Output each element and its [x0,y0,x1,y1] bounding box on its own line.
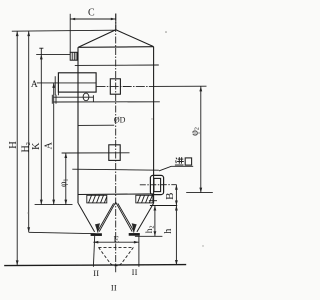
arrow h2 top [154,206,157,211]
K top serif [39,47,43,49]
right wall [153,47,155,204]
center line vertical [115,14,117,273]
svg-text:A: A [43,141,54,149]
ground line [4,265,186,266]
roof right slope [116,30,154,47]
svg-text:B: B [164,193,176,200]
scan speck 1 [165,31,167,33]
arrow h2 bottom [154,231,157,236]
scan speck 4 [202,245,203,246]
phi2 bottom extension [186,192,213,194]
inlet outer box [150,175,163,194]
svg-text:II: II [111,283,117,293]
K top extension [36,53,70,55]
scan speck 3 [27,212,28,213]
arrow phi1 top [64,153,67,158]
small component box upper [110,79,120,94]
scan speck 2 [151,118,152,119]
svg-text:C: C [88,7,95,18]
svg-text:ØD: ØD [114,116,126,125]
left outlet neck [97,226,99,232]
OD leader line [78,124,114,126]
support block left hatch [89,195,107,203]
arrow A top [52,83,55,88]
svg-text:A: A [31,80,38,90]
internal line y169 [72,169,159,170]
inlet leader [159,166,193,171]
hopper cone left inner pair [98,202,116,231]
arrow E right [134,241,139,244]
right outlet neck [133,226,135,232]
outlet duct flange bars [55,76,58,95]
dimension phi1 line [65,153,67,205]
narrow duct flange [52,95,56,104]
arrow E left [93,241,98,244]
left wall [77,47,79,203]
narrow duct line y97 [53,96,93,98]
left outlet flange bar [91,233,102,236]
dimension K line [40,48,42,204]
dashed discharge right side [122,247,134,263]
right outlet flange bar [129,233,140,236]
inlet center line [140,184,177,186]
arrow A bottom [52,200,55,205]
dimension H line [16,31,18,265]
outlet duct rectangle [58,73,96,92]
dashed discharge left side [99,247,111,263]
arrow B top [175,185,178,190]
top-left flange hatch [72,52,76,60]
dashed discharge top [99,246,134,248]
left outlet blob [95,223,100,232]
arrow B bottom [175,201,178,206]
arrow H bottom [16,260,19,265]
h2 bottom extension [135,235,163,237]
bottom extension K A phi1 [35,204,73,206]
dimension h2 line [154,206,156,237]
arrow C right [111,18,116,21]
dimension H2 line [28,31,30,232]
center line horizontal y86 dashdot [97,85,152,87]
small component box middle [109,145,120,161]
svg-text:K: K [31,142,42,150]
duct center line / A extension [37,82,96,84]
support block left [87,195,107,203]
svg-text:II: II [132,267,138,277]
top-left flange block [70,52,77,60]
svg-text:H: H [8,141,19,149]
support block right [136,195,153,203]
hopper cone right outer [137,203,154,232]
arrow h bottom [175,260,178,265]
arrow C left [70,18,75,21]
support block right hatch [138,195,153,203]
arrow h top [175,206,178,211]
inlet label jin glyph [175,157,184,165]
C right extension [115,14,117,31]
dimension B h line [175,185,177,265]
right drop line [138,236,140,267]
dimension phi2 line [200,86,202,192]
arrow K top [40,54,43,59]
right wall bottom stub [149,200,157,202]
arrow H2 top [27,31,30,36]
hopper cone right inner pair [116,202,134,231]
internal line y102 [53,101,160,103]
arrow phi2 bottom [199,188,202,193]
narrow duct cap [92,95,94,102]
svg-text:h: h [163,228,174,234]
cylinder top edge [78,46,153,49]
svg-text:E: E [113,234,119,244]
dimension A line [53,83,55,205]
cylinder bottom line [78,193,154,196]
circle under duct [83,93,89,101]
H2 bottom extension [29,232,96,233]
top extension line [12,30,116,31]
arrow H top [16,31,19,36]
inlet label kou glyph [185,158,191,165]
svg-text:II: II [93,268,99,278]
dimension C line [70,18,116,20]
arrow phi2 top [199,86,202,91]
arrow H2 bottom [27,227,30,232]
top-left pipe [69,14,71,53]
dashed discharge bottom arc [110,263,121,266]
inlet inner box [154,178,161,191]
left drop line [93,236,94,267]
dimension E line [93,241,139,243]
roof left slope [78,30,116,48]
hopper cone left outer [78,203,94,232]
internal line y153 [62,152,130,154]
tube sheet line [75,64,159,66]
phi2 top extension [151,85,207,87]
right outlet blob [132,223,137,232]
arrow phi1 bottom [64,200,67,205]
arrow K bottom [40,200,43,205]
B h shared extension [150,205,177,207]
